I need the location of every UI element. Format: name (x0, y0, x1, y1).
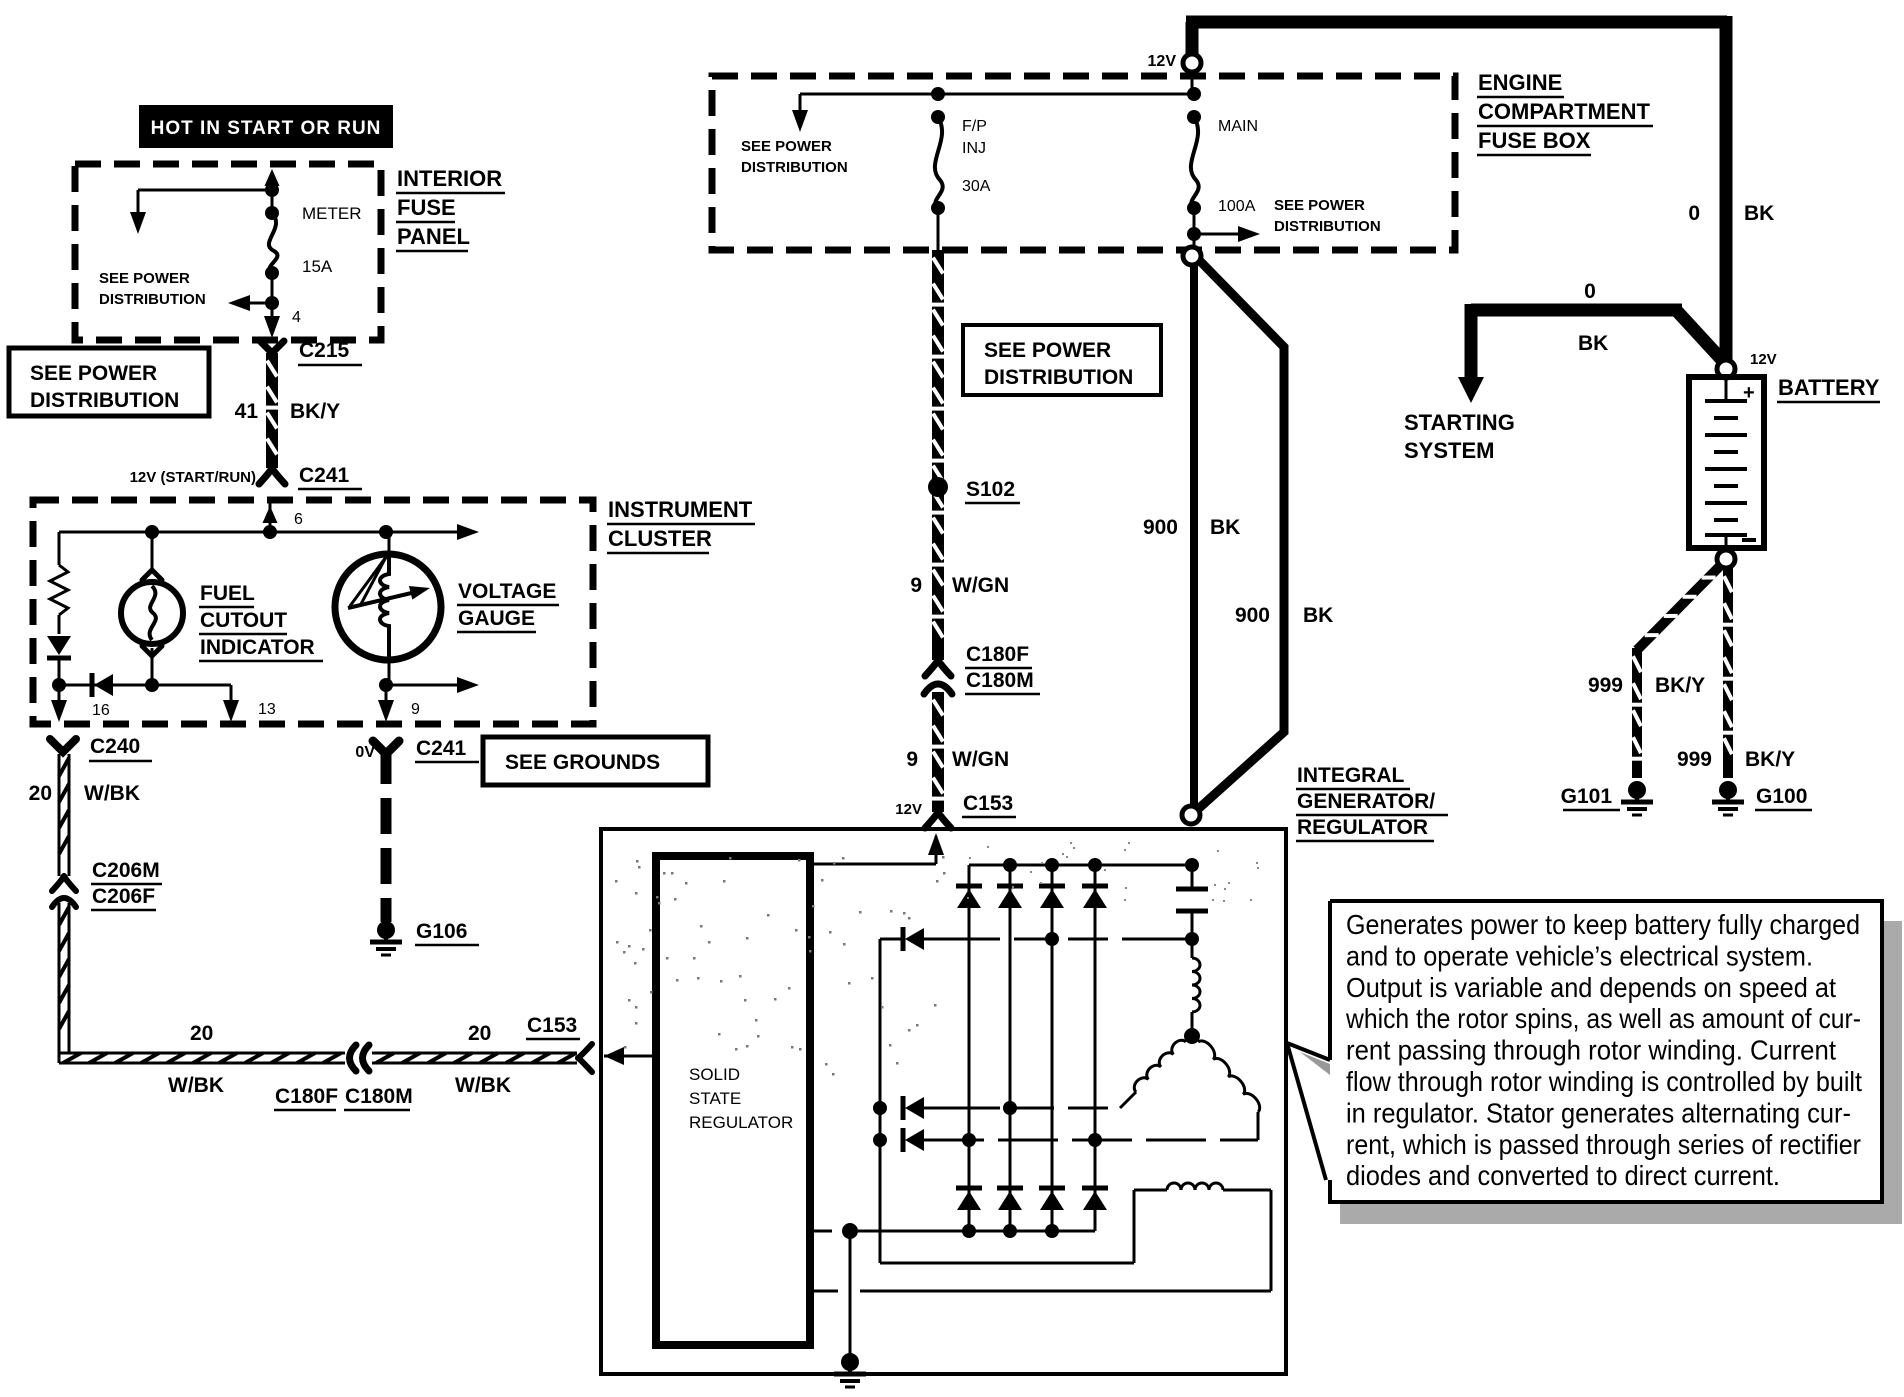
wire 20 W/BK horizontal (59, 1052, 345, 1055)
wire W/GN from fuse box (932, 250, 944, 660)
svg-text:CLUSTER: CLUSTER (608, 526, 712, 551)
svg-text:C241: C241 (416, 737, 467, 760)
svg-text:SEE POWER: SEE POWER (30, 362, 157, 385)
svg-text:BK/Y: BK/Y (1655, 674, 1705, 697)
ring bottom 900 (1182, 806, 1200, 824)
svg-text:30A: 30A (962, 178, 991, 195)
wire 900 BK right loop (1197, 260, 1284, 810)
svg-text:which the rotor spins, as well: which the rotor spins, as well as amount… (1345, 1003, 1861, 1034)
svg-text:0: 0 (1584, 280, 1596, 303)
svg-text:BK: BK (1578, 332, 1608, 355)
node fuse bottom branch (265, 296, 279, 310)
fuel cutout indicator lamp (151, 532, 154, 572)
svg-text:G100: G100 (1756, 785, 1807, 808)
svg-text:SEE POWER: SEE POWER (1274, 197, 1365, 214)
node fuse top (265, 183, 279, 197)
ground G101 (1628, 781, 1646, 799)
svg-text:MAIN: MAIN (1218, 118, 1258, 135)
svg-text:VOLTAGE: VOLTAGE (458, 580, 556, 603)
wire exit pin 13 (230, 685, 233, 704)
svg-text:DISTRIBUTION: DISTRIBUTION (984, 366, 1133, 389)
rectifier diodes top (956, 884, 982, 889)
field diode line upper (880, 938, 905, 941)
wire arrow see power distribution right (1194, 233, 1248, 236)
svg-text:DISTRIBUTION: DISTRIBUTION (30, 389, 179, 412)
svg-text:FUSE BOX: FUSE BOX (1478, 128, 1591, 153)
generator internal ground (849, 1231, 852, 1356)
rectifier diodes bottom (956, 1186, 982, 1191)
wire W/GN lower (932, 692, 944, 812)
resistor cluster left (58, 532, 61, 565)
svg-text:INTEGRAL: INTEGRAL (1297, 764, 1405, 787)
svg-text:G101: G101 (1561, 785, 1613, 808)
connector C180F C180M horizontal (350, 1045, 357, 1071)
wire 900 BK left (1190, 264, 1198, 807)
svg-text:BK/Y: BK/Y (1745, 748, 1795, 771)
wire rectifier top line (969, 864, 1192, 867)
connector C241 lower (373, 741, 399, 754)
svg-text:4: 4 (292, 309, 301, 326)
svg-text:SEE POWER: SEE POWER (99, 270, 190, 287)
svg-text:C153: C153 (527, 1014, 577, 1037)
stator winding left (1134, 1040, 1186, 1092)
instrument cluster box (33, 500, 593, 724)
svg-text:900: 900 (1143, 516, 1178, 539)
svg-text:100A: 100A (1218, 198, 1256, 215)
svg-text:16: 16 (92, 702, 110, 719)
svg-text:BK: BK (1303, 604, 1333, 627)
wire cluster bottom with diode (59, 684, 231, 687)
fuse F/P INJ 30A (931, 110, 945, 124)
svg-text:12V: 12V (1148, 53, 1177, 70)
svg-text:SYSTEM: SYSTEM (1404, 438, 1494, 463)
integral generator regulator box (601, 829, 1286, 1374)
ring top 900 (1183, 247, 1201, 265)
wire arrow to see power distribution left (240, 302, 272, 305)
engine compartment fuse box (712, 76, 1455, 250)
svg-text:W/GN: W/GN (952, 748, 1009, 771)
svg-text:C180F: C180F (275, 1085, 338, 1108)
svg-text:rent passing through rotor win: rent passing through rotor winding. Curr… (1346, 1035, 1836, 1066)
stator wye center (1184, 1028, 1200, 1044)
callout pointer shading (1300, 1052, 1330, 1075)
svg-text:0: 0 (1688, 202, 1700, 225)
svg-text:9: 9 (411, 701, 420, 718)
field diode line lower (901, 1128, 906, 1152)
svg-text:GENERATOR/: GENERATOR/ (1297, 790, 1435, 813)
wire fuse panel exit pin 4 (271, 273, 274, 330)
arrow into generator left (604, 1047, 624, 1065)
svg-text:999: 999 (1677, 748, 1712, 771)
connector C153 top (925, 812, 938, 828)
rectifier bottom line (890, 1230, 1095, 1233)
svg-text:C206M: C206M (92, 859, 160, 882)
svg-text:20: 20 (190, 1022, 213, 1045)
ground G100 (1719, 781, 1737, 799)
svg-text:W/BK: W/BK (455, 1074, 511, 1097)
svg-text:BATTERY: BATTERY (1778, 375, 1880, 400)
wire gauge arrow right (386, 684, 466, 687)
wire starting system branch (1471, 304, 1682, 317)
svg-text:900: 900 (1235, 604, 1270, 627)
splice S102 (928, 477, 948, 497)
svg-text:C180M: C180M (966, 669, 1034, 692)
svg-text:COMPARTMENT: COMPARTMENT (1478, 99, 1650, 124)
node main fuse bottom (1187, 227, 1201, 241)
connector C215 (260, 341, 284, 353)
node main fuse top (1187, 87, 1201, 101)
svg-text:ENGINE: ENGINE (1478, 70, 1562, 95)
svg-text:INTERIOR: INTERIOR (397, 166, 502, 191)
gauge coil (380, 554, 389, 658)
svg-text:HOT IN START OR RUN: HOT IN START OR RUN (151, 118, 382, 139)
svg-text:C206F: C206F (92, 885, 155, 908)
svg-text:DISTRIBUTION: DISTRIBUTION (741, 159, 848, 176)
gauge needle (350, 557, 386, 606)
label HOT IN START OR RUN (139, 105, 393, 148)
svg-text:12V: 12V (1750, 351, 1777, 368)
stator feed coil (1192, 958, 1200, 1012)
rectifier verticals (968, 865, 971, 1231)
svg-text:Generates power to keep batter: Generates power to keep battery fully ch… (1346, 909, 1860, 940)
ground G106 (377, 921, 395, 939)
node bus center (263, 525, 277, 539)
connector ring 12V fuse box (1183, 54, 1201, 72)
svg-text:SEE POWER: SEE POWER (741, 138, 832, 155)
wire regulator to C153 up (810, 863, 936, 866)
see power distribution box middle (963, 325, 1161, 395)
left vertical field bus (879, 939, 882, 1263)
node bottom fuel (145, 678, 159, 692)
svg-text:diodes and converted to direct: diodes and converted to direct current. (1346, 1160, 1780, 1191)
callout note box (1884, 921, 1902, 1206)
svg-text:FUEL: FUEL (200, 582, 255, 605)
svg-text:CUTOUT: CUTOUT (200, 609, 287, 632)
solid state regulator box (656, 856, 810, 1345)
connector C241 upper (259, 468, 272, 484)
svg-text:C180F: C180F (966, 643, 1029, 666)
svg-text:rent, which is passed through: rent, which is passed through series of … (1346, 1129, 1861, 1160)
svg-text:S102: S102 (966, 478, 1015, 501)
svg-text:F/P: F/P (962, 118, 987, 135)
svg-text:in regulator. Stator generate: in regulator. Stator generates alternati… (1346, 1097, 1851, 1128)
wire fp fuse exit (937, 208, 940, 250)
svg-text:20: 20 (468, 1022, 491, 1045)
svg-text:15A: 15A (302, 257, 333, 276)
svg-text:C240: C240 (90, 735, 140, 758)
svg-text:SOLID: SOLID (689, 1065, 740, 1084)
svg-text:STATE: STATE (689, 1089, 741, 1108)
wire 41 BK/Y (266, 353, 278, 468)
svg-text:FUSE: FUSE (397, 195, 456, 220)
svg-text:9: 9 (910, 574, 922, 597)
node bus gauge (379, 525, 393, 539)
svg-text:REGULATOR: REGULATOR (1297, 816, 1428, 839)
node bottom left (52, 678, 66, 692)
diode bottom pointing left (90, 673, 95, 697)
connector C153 left (578, 1044, 592, 1058)
svg-text:41: 41 (235, 400, 259, 423)
svg-text:PANEL: PANEL (397, 224, 470, 249)
connector C240 (50, 739, 76, 752)
svg-text:SEE GROUNDS: SEE GROUNDS (505, 751, 660, 774)
node gauge bottom (379, 678, 393, 692)
svg-text:INJ: INJ (962, 140, 986, 157)
wire branch to see power distribution (138, 189, 272, 192)
node fp fuse top (931, 87, 945, 101)
wire heavy 12V bus top (1186, 22, 1199, 63)
svg-text:C241: C241 (299, 464, 350, 487)
svg-text:0V: 0V (355, 744, 375, 761)
svg-text:999: 999 (1588, 674, 1623, 697)
svg-text:C180M: C180M (345, 1085, 413, 1108)
svg-text:BK: BK (1744, 202, 1774, 225)
wire fuse panel entry (271, 178, 274, 213)
scan noise speckle (723, 880, 726, 883)
see power distribution box left (9, 348, 209, 416)
fuse METER 15A (265, 206, 279, 220)
svg-text:C153: C153 (963, 792, 1013, 815)
wire exit pin 16 (58, 685, 61, 712)
svg-text:BK/Y: BK/Y (290, 400, 340, 423)
wire cluster top bus (59, 531, 466, 534)
svg-text:W/BK: W/BK (84, 782, 140, 805)
connector ring battery bottom (1717, 550, 1735, 568)
connector C180F C180M vertical (925, 660, 938, 676)
wire main fuse exit (1193, 208, 1196, 250)
capacitor (1191, 865, 1194, 889)
wire to G106 dashed thick (381, 748, 392, 922)
svg-text:9: 9 (906, 748, 918, 771)
see grounds box (483, 737, 708, 785)
svg-text:GAUGE: GAUGE (458, 607, 535, 630)
svg-text:and to operate vehicle’s elect: and to operate vehicle’s electrical syst… (1346, 940, 1813, 971)
svg-text:W/GN: W/GN (952, 574, 1009, 597)
wire 999 BK/Y to G101 (1637, 566, 1720, 650)
svg-text:20: 20 (29, 782, 52, 805)
svg-text:flow through rotor winding is: flow through rotor winding is controlled… (1346, 1066, 1862, 1097)
fuse MAIN 100A (1187, 110, 1201, 124)
svg-text:INSTRUMENT: INSTRUMENT (608, 497, 753, 522)
svg-text:C215: C215 (299, 339, 350, 362)
node bus left (145, 525, 159, 539)
svg-text:STARTING: STARTING (1404, 410, 1515, 435)
wire branch arrow left (799, 94, 802, 120)
wire engine box top bus (800, 93, 1194, 96)
svg-text:6: 6 (294, 511, 303, 528)
wire 999 BK/Y to G100 (1723, 568, 1733, 778)
svg-text:DISTRIBUTION: DISTRIBUTION (1274, 218, 1381, 235)
wire 20 W/BK vertical (58, 754, 61, 876)
svg-text:13: 13 (258, 701, 276, 718)
wire gauge down (388, 656, 391, 685)
stator winding right (1198, 1041, 1260, 1112)
connector ring battery top 12V (1717, 360, 1735, 378)
svg-text:W/BK: W/BK (168, 1074, 224, 1097)
diode cluster left down (47, 636, 71, 655)
svg-text:G106: G106 (416, 920, 467, 943)
connector C206M C206F (52, 876, 64, 891)
wire cluster entry pin 6 (269, 500, 272, 532)
svg-text:12V (START/RUN): 12V (START/RUN) (130, 469, 256, 486)
svg-text:12V: 12V (895, 801, 922, 818)
svg-text:SEE POWER: SEE POWER (984, 339, 1111, 362)
voltage gauge (388, 532, 391, 556)
svg-text:DISTRIBUTION: DISTRIBUTION (99, 291, 206, 308)
svg-text:Output is variable and depends: Output is variable and depends on speed … (1346, 972, 1836, 1003)
svg-text:INDICATOR: INDICATOR (200, 636, 315, 659)
wire exit pin 9 (385, 685, 388, 704)
svg-text:REGULATOR: REGULATOR (689, 1113, 793, 1132)
interior fuse panel box (75, 164, 381, 340)
svg-text:METER: METER (302, 204, 362, 223)
field diode line middle (901, 1096, 906, 1120)
battery (1689, 377, 1764, 548)
svg-text:BK: BK (1210, 516, 1240, 539)
rotor winding (880, 1262, 1134, 1265)
